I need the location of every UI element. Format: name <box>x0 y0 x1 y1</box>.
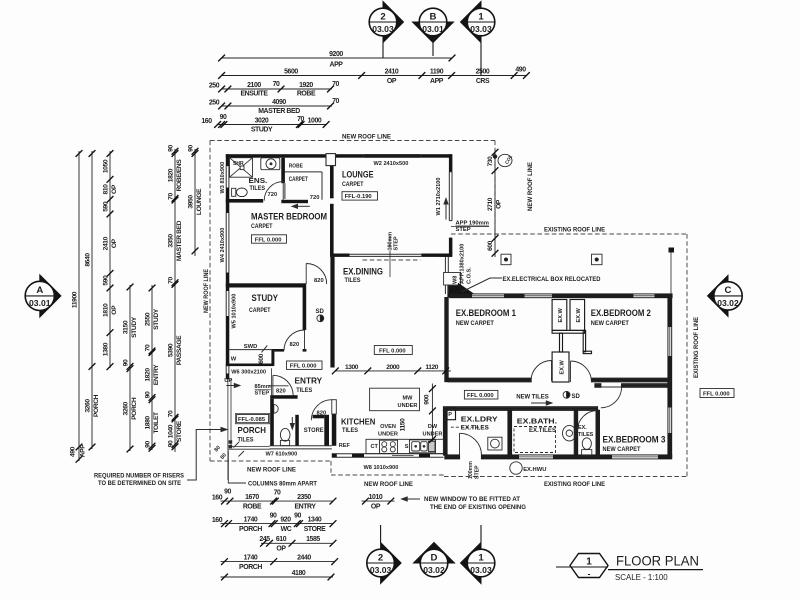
door arc master bedroom 820 <box>306 264 327 285</box>
svg-text:90: 90 <box>294 513 301 520</box>
svg-text:EX.BEDROOM 1: EX.BEDROOM 1 <box>456 308 516 318</box>
svg-text:70: 70 <box>274 490 281 497</box>
svg-text:85mm: 85mm <box>255 384 271 390</box>
ticks top row2 <box>218 72 225 79</box>
svg-text:490: 490 <box>70 446 77 457</box>
wall: closet W east <box>271 349 274 366</box>
svg-text:DW: DW <box>428 424 438 430</box>
porch west edge double line <box>227 379 229 449</box>
svg-text:MASTER BEDROOM: MASTER BEDROOM <box>251 212 327 222</box>
svg-text:NEW ROOF LINE: NEW ROOF LINE <box>364 481 414 488</box>
svg-text:160: 160 <box>212 517 223 524</box>
wall: store north <box>313 415 325 419</box>
svg-text:EX.BEDROOM 2: EX.BEDROOM 2 <box>591 308 651 318</box>
title hexagon <box>570 554 608 578</box>
svg-text:TO BE DETERMINED ON SITE: TO BE DETERMINED ON SITE <box>98 481 181 487</box>
svg-text:NEW CARPET: NEW CARPET <box>456 320 494 327</box>
ticks left col2 <box>89 150 96 157</box>
svg-text:A: A <box>36 285 43 296</box>
svg-text:TILES: TILES <box>342 427 358 434</box>
svg-text:ROBE: ROBE <box>297 91 316 98</box>
svg-text:EXISTING ROOF LINE: EXISTING ROOF LINE <box>544 227 606 234</box>
window W6 left wall <box>225 366 227 373</box>
svg-text:FLOOR PLAN: FLOOR PLAN <box>616 553 699 569</box>
arrow risers note <box>187 430 224 481</box>
sink double bowl <box>410 440 436 453</box>
svg-text:900: 900 <box>424 394 431 405</box>
svg-text:590: 590 <box>103 201 110 212</box>
svg-text:TILES: TILES <box>238 436 254 443</box>
wall: closet W bottom <box>226 364 274 367</box>
svg-text:ROBE: ROBE <box>289 164 303 170</box>
kitchen south wall black fills <box>332 454 430 458</box>
bath tub dashed <box>514 427 556 453</box>
svg-text:1050: 1050 <box>103 159 110 173</box>
svg-text:EX.: EX. <box>578 425 587 431</box>
existing wall: bedroom3 north <box>622 384 668 387</box>
svg-text:STORE: STORE <box>304 427 324 434</box>
existing wall: bottom left piece <box>445 455 460 459</box>
interior dim 730/2710/600 vertical <box>494 152 496 257</box>
svg-text:2440: 2440 <box>297 555 311 562</box>
bottom dim rowD <box>221 561 335 563</box>
svg-text:1010: 1010 <box>369 494 383 501</box>
laundry bench dashed <box>451 426 488 428</box>
window labels <box>220 161 472 471</box>
window bedroom1 top A <box>472 294 504 297</box>
svg-text:STUDY: STUDY <box>251 126 273 133</box>
svg-text:LOUNGE: LOUNGE <box>342 170 374 180</box>
svg-text:FFL-0.190: FFL-0.190 <box>345 194 372 200</box>
svg-text:1670: 1670 <box>245 494 259 501</box>
svg-text:W3 810x900: W3 810x900 <box>220 162 226 194</box>
svg-text:EXISTING ROOF LINE: EXISTING ROOF LINE <box>693 316 700 378</box>
svg-text:720: 720 <box>310 195 320 201</box>
entry/porch step edge <box>271 368 273 395</box>
svg-text:NEW TILES: NEW TILES <box>516 393 549 400</box>
svg-text:2: 2 <box>378 552 383 563</box>
svg-text:03.03: 03.03 <box>372 24 394 34</box>
svg-text:APP: APP <box>330 62 344 69</box>
svg-text:OP: OP <box>276 545 286 552</box>
svg-text:TILES: TILES <box>250 185 266 192</box>
basin ens <box>261 158 280 170</box>
ticks left col3 <box>107 150 114 157</box>
ticks col dim lounge right <box>492 149 499 156</box>
svg-text:TILES: TILES <box>578 432 594 438</box>
svg-text:OP: OP <box>111 184 118 194</box>
bath wc toilet <box>582 438 591 450</box>
thin line above existing house left of bedroom2 <box>670 253 672 294</box>
svg-text:70: 70 <box>332 98 339 105</box>
marker bottom 2/03.03 <box>367 525 401 584</box>
DOOR ARCS existing <box>460 361 622 456</box>
wall: dining SE corner stub <box>439 254 452 257</box>
svg-text:COLUMNS 80mm APART: COLUMNS 80mm APART <box>248 481 317 487</box>
door arc kitchen 820 <box>311 400 332 421</box>
svg-text:1585: 1585 <box>306 536 320 543</box>
svg-text:FFL-0.085: FFL-0.085 <box>238 417 266 423</box>
svg-text:SD: SD <box>572 394 581 400</box>
svg-text:9200: 9200 <box>329 51 343 58</box>
svg-text:1150: 1150 <box>400 418 407 431</box>
svg-text:1: 1 <box>478 11 484 22</box>
svg-text:2410: 2410 <box>103 236 110 250</box>
svg-text:3150: 3150 <box>123 320 130 334</box>
ticks bottom rowD <box>221 558 228 565</box>
svg-text:SD: SD <box>316 309 325 315</box>
svg-text:03.02: 03.02 <box>717 298 739 308</box>
svg-text:820: 820 <box>290 342 300 348</box>
wall: study south stub left of door <box>274 349 284 352</box>
svg-text:3350: 3350 <box>168 234 175 248</box>
svg-text:W8 1010x900: W8 1010x900 <box>364 465 399 471</box>
ticks dining interior <box>332 368 339 375</box>
new roof line top horizontal <box>210 140 495 142</box>
door arc ens 720 <box>264 182 283 201</box>
bottom dim rowA <box>221 500 334 502</box>
svg-text:W8: W8 <box>453 276 459 284</box>
svg-text:610: 610 <box>276 536 287 543</box>
interior dim 900/1150 vertical kitchen <box>431 384 433 442</box>
FFL boxes <box>235 192 734 424</box>
svg-text:820: 820 <box>276 388 286 394</box>
existing wall black infill segments <box>444 294 672 458</box>
svg-text:EX.HWU: EX.HWU <box>523 467 546 473</box>
svg-text:1380: 1380 <box>103 342 110 356</box>
marker top B/03.01 <box>413 8 454 56</box>
arrow robe slider <box>294 205 310 207</box>
svg-text:STEP: STEP <box>456 227 471 233</box>
svg-text:600: 600 <box>487 240 494 251</box>
dining step edge dashed horizontal <box>363 259 421 261</box>
title block <box>556 553 703 583</box>
svg-text:03.01: 03.01 <box>422 24 444 34</box>
svg-text:THE END OF EXISTING OPENING: THE END OF EXISTING OPENING <box>430 504 526 511</box>
svg-text:90: 90 <box>168 145 175 152</box>
wall: ens/robe divider <box>281 158 285 184</box>
svg-text:TILES: TILES <box>296 387 312 394</box>
svg-text:810: 810 <box>103 184 110 195</box>
window W3 left wall <box>225 166 227 187</box>
ffl hallway <box>464 390 498 399</box>
door arc wc rear <box>578 411 598 431</box>
svg-text:TOILET: TOILET <box>153 411 160 434</box>
svg-text:03.03: 03.03 <box>370 565 392 575</box>
left dim col5 <box>151 285 153 450</box>
ticks bottom rowB <box>221 520 228 527</box>
svg-text:EX.LDRY: EX.LDRY <box>461 415 498 424</box>
svg-text:90: 90 <box>145 441 152 448</box>
existing wall: bottom main <box>482 455 672 459</box>
svg-text:TILES: TILES <box>345 277 361 284</box>
svg-text:EX.W: EX.W <box>558 307 564 322</box>
arrow new tiles hallway <box>531 402 549 404</box>
svg-text:P: P <box>448 412 452 418</box>
door arc bedroom2 <box>571 361 592 382</box>
dimension ticks <box>76 55 530 581</box>
svg-text:NEW ROOF LINE: NEW ROOF LINE <box>247 467 297 474</box>
svg-text:EX.ELECTRICAL BOX RELOCATED: EX.ELECTRICAL BOX RELOCATED <box>503 276 601 283</box>
svg-text:70: 70 <box>145 344 152 351</box>
cooktop <box>380 440 398 453</box>
ticks left col7 <box>192 148 199 155</box>
svg-text:EX.BEDROOM 3: EX.BEDROOM 3 <box>603 434 666 444</box>
closet divider stub <box>560 333 563 352</box>
svg-text:2500: 2500 <box>476 69 490 76</box>
svg-text:90: 90 <box>145 391 152 398</box>
svg-text:UP: UP <box>224 378 232 384</box>
window bedroom1 top B <box>525 294 553 297</box>
svg-text:1880: 1880 <box>145 416 152 430</box>
existing wall: bedroom3 north hinge stub <box>595 384 601 387</box>
marker top 2/03.03 <box>369 2 403 59</box>
svg-text:600: 600 <box>258 353 265 364</box>
svg-text:ENSUITE: ENSUITE <box>240 91 268 98</box>
svg-text:820: 820 <box>314 278 324 284</box>
bottom dim rowB <box>221 523 334 525</box>
wall: study south stub at door hinge <box>303 349 307 352</box>
bottom dim 1010 op <box>362 500 395 502</box>
svg-text:3260: 3260 <box>85 399 92 413</box>
top dim row3 <box>222 88 332 90</box>
svg-text:ENS.: ENS. <box>249 176 268 185</box>
bath basin <box>563 425 577 441</box>
windows existing walls <box>472 294 671 458</box>
door arc study 820 <box>284 330 305 351</box>
bottom dim rowC <box>261 542 333 544</box>
wall: robe south <box>281 200 308 203</box>
svg-text:EX.W: EX.W <box>576 307 582 322</box>
svg-text:FFL 0.000: FFL 0.000 <box>467 393 494 399</box>
mw bench kitchen <box>370 388 420 411</box>
wall: ens south <box>226 199 263 203</box>
svg-text:REF: REF <box>339 443 351 449</box>
dimension text bottom <box>212 489 383 578</box>
kitchen benchtop <box>366 439 444 453</box>
arrow new window note <box>405 498 421 500</box>
wall: top exterior (new section) <box>226 154 452 158</box>
wall: wc front east <box>295 415 299 446</box>
svg-text:1000: 1000 <box>308 118 322 125</box>
svg-text:1120: 1120 <box>425 364 438 371</box>
wall: lounge west upper <box>330 166 334 199</box>
arrow UP porch <box>226 385 237 387</box>
svg-text:1820: 1820 <box>168 168 175 182</box>
leader columns note <box>228 451 246 484</box>
wall: left exterior segment 3 <box>226 273 230 292</box>
top dim row4 <box>222 105 332 107</box>
svg-text:FFL 0.000: FFL 0.000 <box>703 391 730 397</box>
existing wall: hallway south <box>444 407 598 411</box>
existing roof line bottom <box>444 476 687 478</box>
svg-text:90: 90 <box>224 489 231 496</box>
svg-text:EXISTING ROOF LINE: EXISTING ROOF LINE <box>544 481 606 488</box>
dimension text interior <box>258 156 503 431</box>
wc front basin semicircle <box>274 404 278 413</box>
wall: wc front top <box>270 395 297 399</box>
arrows <box>187 199 552 502</box>
svg-text:730: 730 <box>487 156 494 167</box>
svg-text:KITCHEN: KITCHEN <box>341 418 376 427</box>
svg-text:EX.W: EX.W <box>560 359 566 374</box>
opening lounge/dining step thin lines <box>350 253 422 255</box>
svg-text:03.02: 03.02 <box>423 565 445 575</box>
svg-text:PASSAGE: PASSAGE <box>176 335 183 365</box>
svg-text:STUDY: STUDY <box>131 316 138 338</box>
roof line labels <box>203 134 700 489</box>
svg-text:90: 90 <box>168 440 175 447</box>
closet bottom wall <box>552 330 585 333</box>
svg-text:NEW ROOF LINE: NEW ROOF LINE <box>203 268 210 313</box>
ffl dining <box>374 346 412 355</box>
dimension text top <box>201 51 526 133</box>
svg-text:1300: 1300 <box>345 364 359 371</box>
ticks top row3 <box>218 86 225 93</box>
dining east wall with W8 COS opening <box>444 257 446 294</box>
svg-text:MASTER BED: MASTER BED <box>176 220 183 261</box>
svg-text:CARPET: CARPET <box>342 181 364 188</box>
existing wall: left <box>445 298 448 382</box>
svg-text:APP: APP <box>80 444 87 457</box>
svg-text:FFL 0.000: FFL 0.000 <box>255 237 282 243</box>
electrical post square 2 <box>592 254 603 265</box>
ticks left col4 <box>127 284 134 291</box>
kitchen south wall double <box>332 453 444 455</box>
marker right C/03.02 <box>708 275 743 316</box>
door arc wc front 820 <box>273 375 293 395</box>
svg-text:160: 160 <box>201 118 212 125</box>
svg-text:APP 190mm: APP 190mm <box>456 221 489 227</box>
svg-text:590: 590 <box>103 275 110 286</box>
svg-text:PORCH: PORCH <box>93 394 100 417</box>
svg-text:ENTRY: ENTRY <box>295 375 323 385</box>
black cap top of existing wall line <box>669 248 675 253</box>
svg-text:OP: OP <box>496 199 503 209</box>
wall: wc front west <box>270 399 274 446</box>
marker left A/03.01 <box>25 275 61 317</box>
svg-text:90: 90 <box>188 145 195 152</box>
marker bottom D/03.02 <box>414 543 455 577</box>
wall: master bedroom south <box>226 283 306 287</box>
svg-text:70: 70 <box>297 116 304 123</box>
svg-text:3260: 3260 <box>123 401 130 415</box>
svg-text:CARPET: CARPET <box>251 223 273 230</box>
svg-text:NEW CARPET: NEW CARPET <box>591 320 629 327</box>
door arc bedroom3 <box>601 387 622 408</box>
svg-text:245: 245 <box>259 536 270 543</box>
wall: kitchen west <box>332 414 337 446</box>
svg-text:250: 250 <box>209 100 220 107</box>
svg-text:1920: 1920 <box>299 82 313 89</box>
ffl porch <box>237 415 269 423</box>
dimension lines <box>79 58 526 577</box>
wall: lounge east lower <box>449 238 453 254</box>
svg-text:OP: OP <box>111 305 118 315</box>
new roof line right vertical <box>494 141 496 235</box>
svg-text:WC: WC <box>281 526 292 533</box>
left dim col6 <box>174 149 176 452</box>
svg-text:EX.TILES: EX.TILES <box>529 427 556 434</box>
svg-text:1040: 1040 <box>168 424 175 438</box>
new roof line step vertical <box>330 461 332 475</box>
svg-text:1340: 1340 <box>308 517 322 524</box>
existing roof line top horizontal <box>451 233 687 235</box>
window bath bottom <box>519 455 553 458</box>
svg-text:UNDER: UNDER <box>378 431 398 437</box>
window bedroom3 right <box>668 408 671 434</box>
svg-text:03.03: 03.03 <box>470 565 492 575</box>
svg-text:PORCH: PORCH <box>239 526 262 533</box>
front wall below wc/store with W7 <box>270 445 332 447</box>
svg-text:PORCH: PORCH <box>238 425 266 435</box>
dimension text left block rotated <box>70 145 204 458</box>
svg-text:W6 300x2100: W6 300x2100 <box>231 370 266 376</box>
left dim col7 lounge <box>194 149 196 256</box>
svg-text:1: 1 <box>586 557 592 568</box>
window bedroom2 top <box>633 294 654 297</box>
svg-text:2550: 2550 <box>145 312 152 326</box>
closet EX.W 1 <box>552 300 567 331</box>
svg-text:STUDY: STUDY <box>153 308 160 330</box>
svg-text:STEP: STEP <box>394 236 400 250</box>
svg-text:920: 920 <box>280 517 291 524</box>
ROOFLINES <box>210 141 687 477</box>
svg-text:90: 90 <box>270 513 277 520</box>
wall: store east <box>324 415 329 446</box>
svg-text:1740: 1740 <box>244 555 258 562</box>
existing wall: kitchen/laundry divider <box>444 410 448 455</box>
svg-text:CARPET: CARPET <box>249 307 271 314</box>
SWD sliding door track study south <box>229 349 271 351</box>
ffl lounge <box>342 192 378 200</box>
svg-text:APP: APP <box>430 78 444 85</box>
left dim col1 <box>78 151 80 461</box>
svg-text:OP: OP <box>371 504 381 511</box>
svg-text:CT: CT <box>371 444 379 450</box>
left dim col2 <box>91 151 93 449</box>
svg-text:W5 1010x900: W5 1010x900 <box>232 294 238 329</box>
ticks top row5 <box>214 121 221 128</box>
ticks kitchen vertical <box>429 385 436 392</box>
svg-text:UNDER: UNDER <box>398 403 418 409</box>
ticks top row4 <box>218 103 225 110</box>
svg-text:8640: 8640 <box>85 253 92 267</box>
svg-text:ENTRY: ENTRY <box>294 504 316 511</box>
window W5 left wall <box>225 291 227 316</box>
svg-text:SCALE - 1:100: SCALE - 1:100 <box>615 573 668 582</box>
window W8 in kitchen south wall <box>392 454 414 456</box>
svg-text:STORE: STORE <box>304 526 326 533</box>
ticks left col6 <box>172 148 179 155</box>
new roof line left vertical <box>209 141 211 462</box>
wall: left exterior below W6 <box>226 373 230 379</box>
svg-text:1820: 1820 <box>145 368 152 382</box>
svg-text:W: W <box>231 357 237 363</box>
svg-text:2100: 2100 <box>247 82 261 89</box>
new roof line porch bottom <box>210 460 331 462</box>
svg-text:4180: 4180 <box>292 570 306 577</box>
arrow wc front down <box>291 417 293 426</box>
svg-text:1: 1 <box>478 552 484 563</box>
porch columns pair <box>229 440 233 443</box>
svg-text:APP.1380x2100: APP.1380x2100 <box>460 244 466 284</box>
existing wall: bath/wc divider <box>574 410 577 455</box>
wall: left exterior segment 1 <box>226 154 230 166</box>
svg-text:2350: 2350 <box>297 494 311 501</box>
wall closet2/bedroom2 <box>583 330 585 351</box>
windows new section: thin double lines <box>226 154 489 480</box>
